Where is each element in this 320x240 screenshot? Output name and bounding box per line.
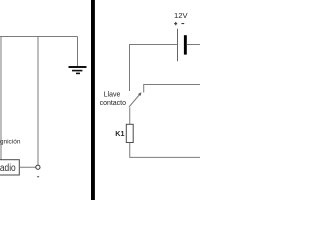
svg-text:12V: 12V <box>174 11 188 20</box>
svg-text:ignición: ignición <box>0 139 21 146</box>
svg-text:Llave: Llave <box>104 91 121 98</box>
svg-text:K1: K1 <box>115 129 124 138</box>
svg-text:contacto: contacto <box>100 100 127 107</box>
svg-text:Radio: Radio <box>0 162 16 174</box>
